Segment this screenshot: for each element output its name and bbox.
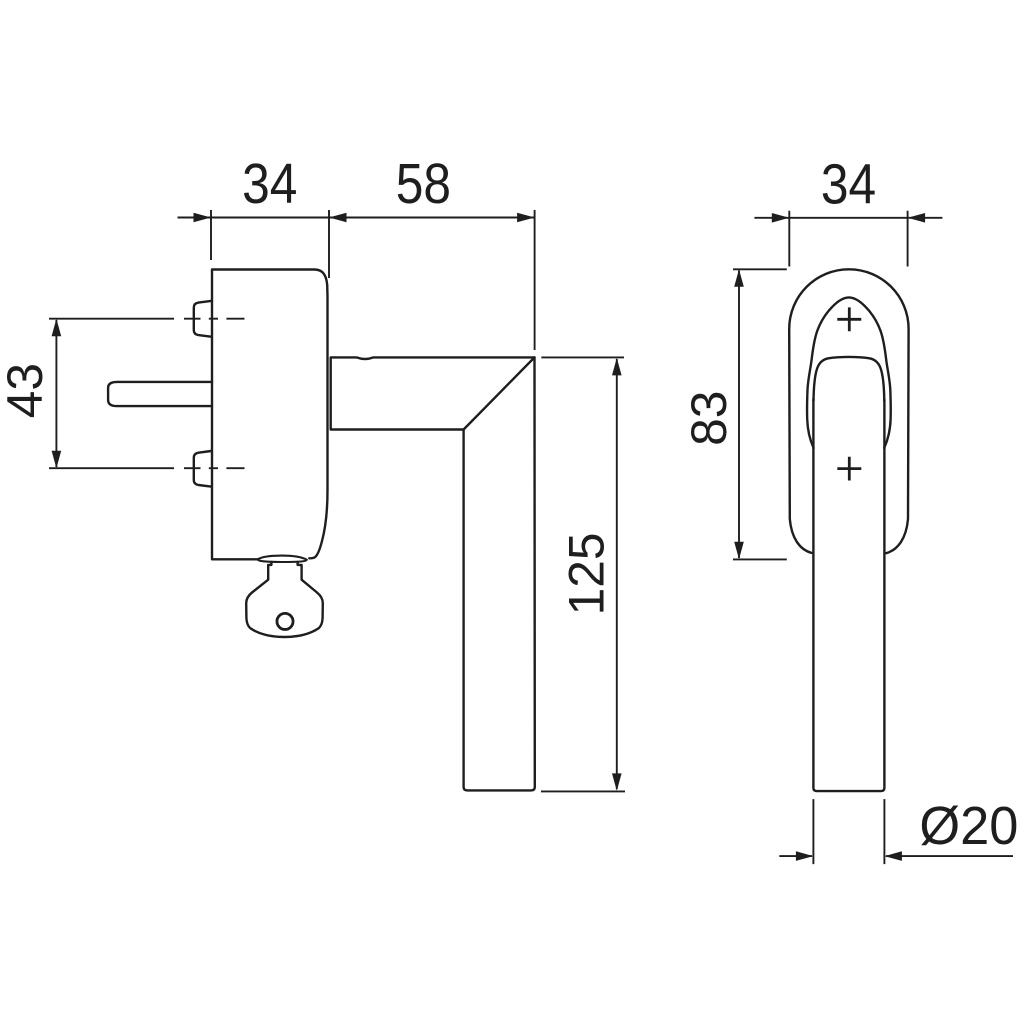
grip sides and bottom — [813, 399, 884, 791]
arrow down at 468.2 — [52, 451, 62, 469]
svg-text:58: 58 — [396, 153, 451, 216]
dimension line 34 right — [754, 217, 942, 219]
svg-text:125: 125 — [558, 532, 614, 615]
dimension diameter 20 — [779, 799, 1013, 864]
dimension 34 (right view) — [754, 211, 942, 267]
right view rosette (stadium) — [789, 269, 908, 791]
dimension line 43 — [55, 320, 57, 467]
dimension 83 — [733, 269, 787, 559]
arrow at 884.4 pointing left — [884, 851, 902, 861]
extension lines 125 — [541, 357, 625, 791]
lever neck and grip (left view) — [331, 357, 535, 790]
dimension line diameter 20 — [779, 855, 1013, 857]
handle body (left view rosette/lock case) — [212, 270, 328, 560]
arrow down 83 — [734, 542, 744, 560]
keyhole — [277, 613, 293, 629]
centerline dashes top — [184, 318, 245, 320]
centerline solid segment bottom — [49, 467, 174, 469]
svg-text:43: 43 — [0, 363, 53, 418]
neck arch (middle) — [807, 297, 891, 448]
centerline dashes bottom — [184, 467, 245, 469]
svg-text:34: 34 — [821, 154, 876, 217]
dimension line 125 — [616, 359, 618, 789]
arrow at 789.3 pointing right — [772, 213, 790, 223]
spindle (square shaft) — [108, 382, 212, 406]
plus mark bottom — [837, 457, 861, 481]
arrow at 813.4 pointing right — [796, 851, 814, 861]
svg-text:34: 34 — [242, 153, 297, 216]
arrow at 211 pointing right — [194, 213, 212, 223]
arrow up at 318.7 — [52, 319, 62, 337]
screw lug top — [194, 301, 211, 337]
lever bend miter line — [464, 357, 535, 429]
svg-text:Ø20: Ø20 — [919, 796, 1018, 856]
dimension 43 (left) — [52, 319, 62, 469]
screw lug bottom — [194, 451, 211, 487]
centerline top screw — [49, 318, 245, 320]
rosette stadium outline — [789, 269, 908, 553]
key (shank and bow) — [246, 562, 323, 637]
dimension line 34-58 — [178, 217, 535, 219]
arrow down 125 — [612, 773, 622, 791]
arrow at 907.6 pointing left — [908, 213, 926, 223]
dimension 125 — [541, 357, 625, 791]
arrow at 329 pointing left — [329, 213, 347, 223]
plus mark top — [837, 307, 861, 331]
extension lines diameter 20 — [813, 799, 884, 864]
dimension line 83 — [738, 271, 740, 559]
centerline bottom screw — [49, 467, 245, 469]
extension lines — [211, 210, 535, 350]
arrow up 83 — [734, 269, 744, 287]
arrow up 125 — [612, 358, 622, 376]
neck flange line — [330, 358, 332, 430]
dimension 34/58 line (left view) — [178, 210, 535, 350]
extension lines 83 — [733, 269, 787, 559]
cylinder lens on body bottom — [258, 556, 307, 562]
arrow at 534.6 pointing right — [517, 213, 535, 223]
centerline solid segment top — [49, 318, 174, 320]
grip cap (inner arch) — [814, 357, 885, 401]
svg-text:83: 83 — [681, 391, 737, 446]
extension lines 34 right — [789, 211, 907, 267]
